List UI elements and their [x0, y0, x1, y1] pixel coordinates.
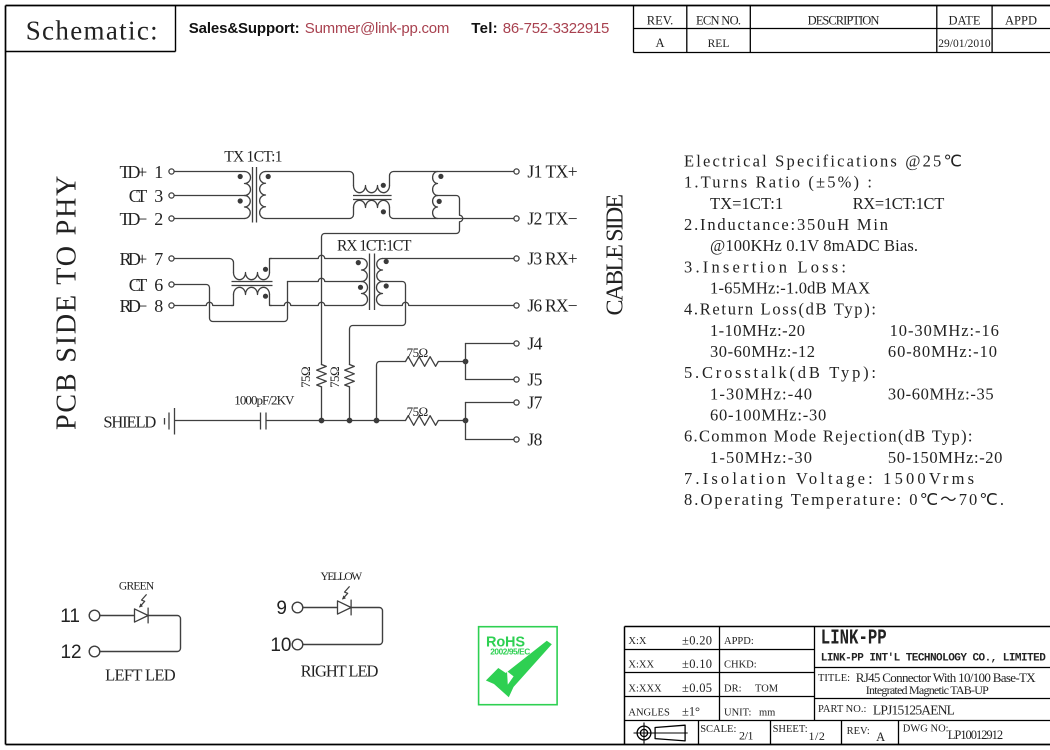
svg-text:TX 1CT:1: TX 1CT:1: [224, 149, 282, 166]
svg-text:6: 6: [154, 275, 163, 295]
svg-text:50-150MHz:-20: 50-150MHz:-20: [888, 448, 1003, 467]
svg-text:@100KHz 0.1V 8mADC Bias.: @100KHz 0.1V 8mADC Bias.: [710, 236, 918, 255]
svg-text:RX=1CT:1CT: RX=1CT:1CT: [853, 194, 945, 213]
svg-text:J1 TX+: J1 TX+: [527, 162, 577, 182]
svg-text:TITLE:: TITLE:: [818, 673, 850, 684]
svg-text:1: 1: [154, 162, 163, 182]
svg-text:ANGLES: ANGLES: [628, 707, 670, 718]
svg-text:TOM: TOM: [755, 683, 779, 694]
svg-text:1-65MHz:-1.0dB MAX: 1-65MHz:-1.0dB MAX: [710, 279, 870, 298]
svg-text:J2 TX−: J2 TX−: [527, 209, 577, 229]
svg-text:APPD:: APPD:: [724, 636, 754, 647]
svg-text:10: 10: [270, 635, 291, 656]
svg-text:12: 12: [60, 642, 81, 663]
svg-text:CABLE SIDE: CABLE SIDE: [603, 194, 629, 316]
svg-text:REL: REL: [708, 38, 730, 50]
svg-text:2/1: 2/1: [739, 729, 754, 743]
svg-text:60-80MHz:-10: 60-80MHz:-10: [888, 342, 997, 361]
svg-text:DESCRIPTION: DESCRIPTION: [808, 13, 880, 27]
svg-text:YELLOW: YELLOW: [321, 571, 363, 583]
svg-text:REV:: REV:: [847, 726, 870, 737]
svg-text:75Ω: 75Ω: [407, 345, 429, 360]
svg-text:LP10012912: LP10012912: [948, 728, 1003, 742]
svg-text:Sales&Support:: Sales&Support:: [189, 20, 300, 37]
svg-text:±0.10: ±0.10: [682, 657, 712, 671]
svg-text:86-752-3322915: 86-752-3322915: [503, 20, 610, 37]
svg-text:4.Return Loss(dB Typ):: 4.Return Loss(dB Typ):: [684, 300, 876, 319]
svg-text:J4: J4: [527, 334, 542, 354]
svg-text:3: 3: [154, 186, 163, 206]
svg-text:8: 8: [154, 296, 163, 316]
svg-text:Electrical Specifications @25℃: Electrical Specifications @25℃: [684, 152, 962, 171]
svg-text:7: 7: [154, 249, 163, 269]
svg-text:30-60MHz:-12: 30-60MHz:-12: [710, 342, 815, 361]
svg-text:J6 RX−: J6 RX−: [527, 296, 577, 316]
svg-text:CT: CT: [129, 186, 148, 206]
svg-text:LINK-PP INT'L TECHNOLOGY CO.,: LINK-PP INT'L TECHNOLOGY CO., LIMITED: [821, 653, 1046, 665]
svg-text:X:XX: X:XX: [628, 659, 654, 670]
svg-text:J7: J7: [527, 393, 542, 413]
svg-text:11: 11: [60, 606, 80, 627]
svg-text:SCALE:: SCALE:: [700, 724, 736, 735]
svg-text:6.Common Mode Rejection(dB Typ: 6.Common Mode Rejection(dB Typ):: [684, 427, 973, 446]
svg-text:29/01/2010: 29/01/2010: [938, 38, 991, 50]
svg-text:RD+: RD+: [120, 249, 148, 269]
svg-text:TD+: TD+: [120, 162, 148, 182]
svg-text:PCB SIDE TO PHY: PCB SIDE TO PHY: [52, 176, 83, 430]
svg-text:75Ω: 75Ω: [327, 366, 342, 388]
svg-text:75Ω: 75Ω: [407, 404, 429, 419]
svg-text:9: 9: [276, 598, 287, 619]
svg-text:GREEN: GREEN: [119, 580, 155, 592]
svg-text:Integrated Magnetic TAB-UP: Integrated Magnetic TAB-UP: [866, 683, 989, 697]
svg-text:75Ω: 75Ω: [298, 366, 313, 388]
svg-text:X:XXX: X:XXX: [628, 683, 662, 694]
svg-text:±0.05: ±0.05: [682, 681, 712, 695]
svg-text:30-60MHz:-35: 30-60MHz:-35: [888, 384, 994, 403]
svg-text:CHKD:: CHKD:: [724, 659, 757, 670]
svg-text:CT: CT: [129, 275, 148, 295]
svg-text:J8: J8: [527, 430, 542, 450]
svg-text:1-30MHz:-40: 1-30MHz:-40: [710, 384, 812, 403]
svg-text:LPJ15125AENL: LPJ15125AENL: [873, 703, 955, 718]
svg-text:5.Crosstalk(dB Typ):: 5.Crosstalk(dB Typ):: [684, 363, 876, 382]
svg-text:PART NO.:: PART NO.:: [818, 704, 866, 715]
svg-text:60-100MHz:-30: 60-100MHz:-30: [710, 406, 826, 425]
svg-text:SHIELD: SHIELD: [103, 412, 156, 431]
svg-text:RD−: RD−: [120, 296, 148, 316]
svg-text:DWG NO:: DWG NO:: [903, 724, 949, 735]
svg-text:REV.: REV.: [647, 13, 674, 27]
svg-text:mm: mm: [759, 707, 775, 718]
svg-text:LINK-PP: LINK-PP: [821, 625, 887, 650]
svg-text:Schematic:: Schematic:: [26, 15, 158, 45]
svg-text:LEFT LED: LEFT LED: [105, 665, 176, 684]
svg-text:1000pF/2KV: 1000pF/2KV: [234, 393, 295, 408]
svg-text:A: A: [876, 730, 885, 744]
svg-text:APPD: APPD: [1005, 13, 1037, 27]
svg-text:TD−: TD−: [120, 209, 148, 229]
svg-text:1/2: 1/2: [809, 729, 825, 743]
svg-text:±1°: ±1°: [682, 704, 700, 718]
svg-text:RX 1CT:1CT: RX 1CT:1CT: [337, 238, 412, 255]
svg-text:2: 2: [154, 209, 163, 229]
svg-text:1-10MHz:-20: 1-10MHz:-20: [710, 321, 805, 340]
svg-text:2.Inductance:350uH Min: 2.Inductance:350uH Min: [684, 215, 888, 234]
svg-text:10-30MHz:-16: 10-30MHz:-16: [890, 321, 999, 340]
svg-text:2002/95/EC: 2002/95/EC: [490, 647, 530, 657]
svg-text:Summer@link-pp.com: Summer@link-pp.com: [305, 20, 450, 37]
svg-text:1.Turns Ratio (±5%) :: 1.Turns Ratio (±5%) :: [684, 173, 872, 192]
svg-text:UNIT:: UNIT:: [724, 707, 752, 718]
svg-text:RIGHT LED: RIGHT LED: [301, 662, 379, 681]
svg-text:ECN NO.: ECN NO.: [696, 13, 741, 27]
svg-text:Tel:: Tel:: [471, 20, 497, 37]
svg-text:±0.20: ±0.20: [682, 634, 712, 648]
svg-text:DATE: DATE: [949, 13, 981, 27]
svg-text:7.Isolation Voltage: 1500Vrms: 7.Isolation Voltage: 1500Vrms: [684, 469, 974, 488]
svg-text:TX=1CT:1: TX=1CT:1: [710, 194, 783, 213]
svg-text:DR:: DR:: [724, 683, 742, 694]
svg-text:A: A: [655, 36, 664, 50]
svg-text:SHEET:: SHEET:: [773, 724, 808, 735]
svg-text:J3 RX+: J3 RX+: [527, 249, 577, 269]
svg-text:X:X: X:X: [628, 636, 647, 647]
svg-text:1-50MHz:-30: 1-50MHz:-30: [710, 448, 812, 467]
svg-text:J5: J5: [527, 370, 542, 390]
